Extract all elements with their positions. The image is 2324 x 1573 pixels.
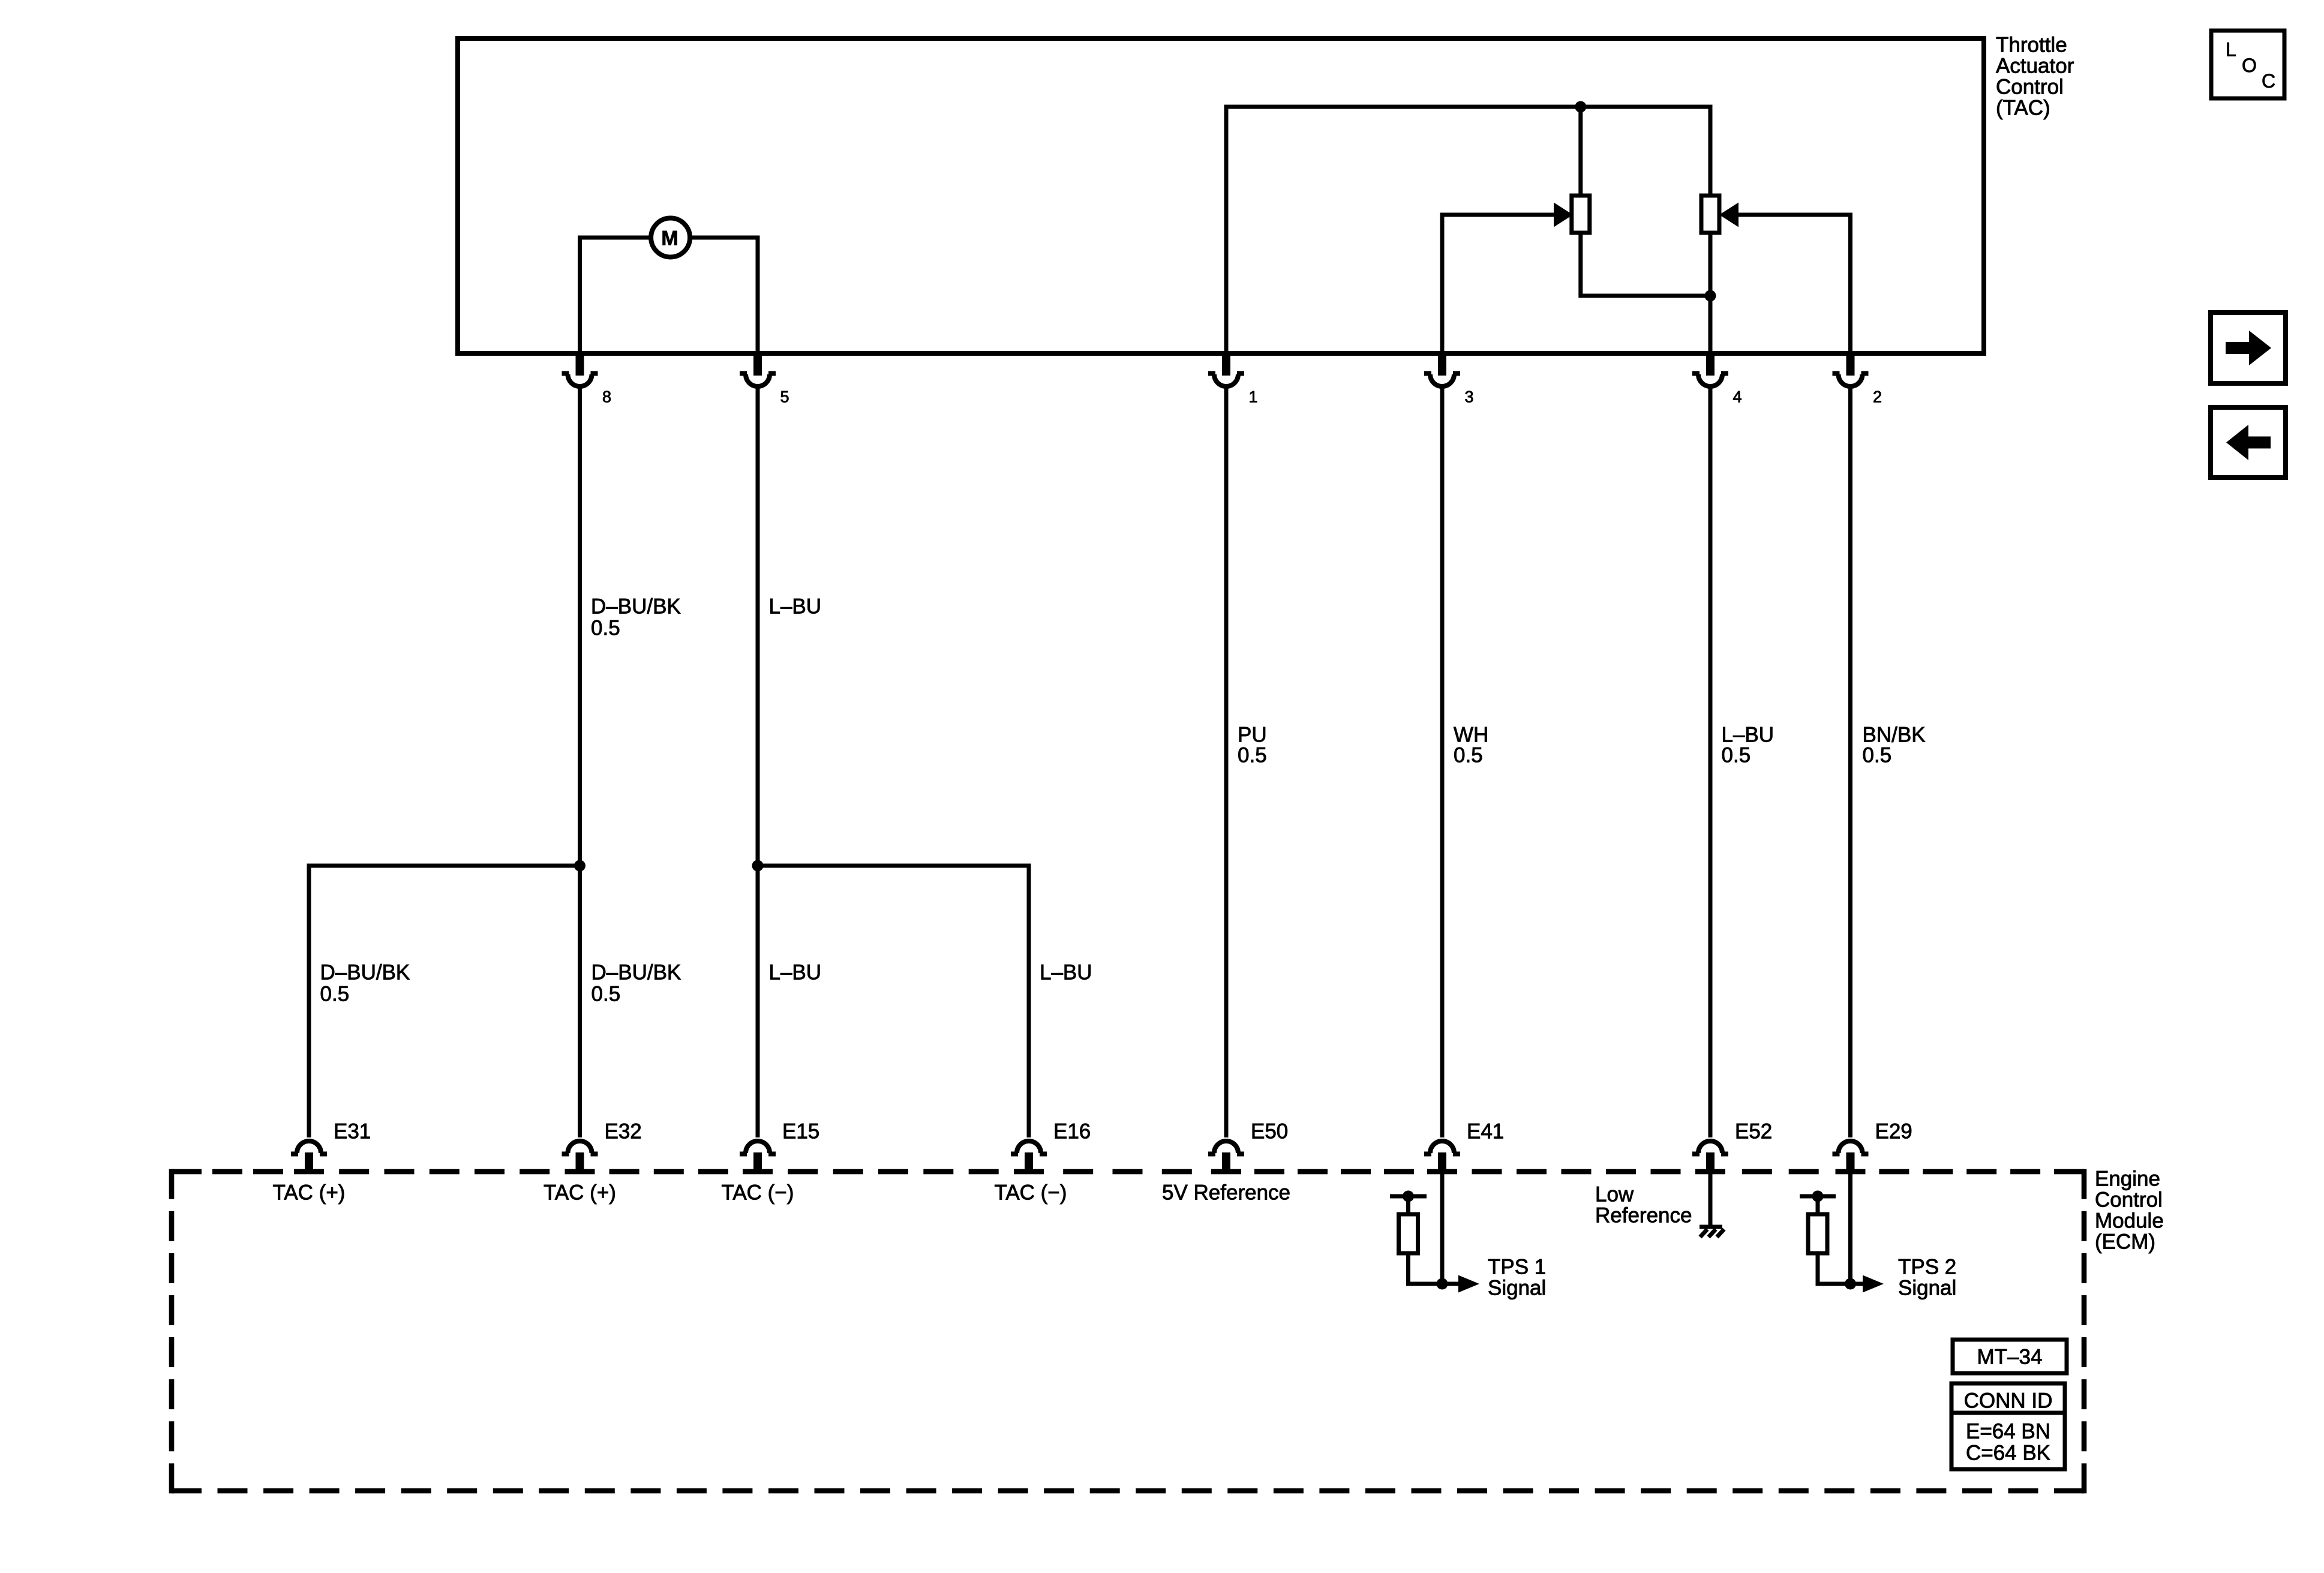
- svg-text:L–BU: L–BU: [1040, 961, 1092, 984]
- node: TPS1 crossbar junction: [1403, 1191, 1414, 1202]
- node: TPS2 signal junction: [1845, 1278, 1856, 1290]
- Engine Control Module (ECM) dashed box: top edge: [172, 1169, 2084, 1175]
- svg-text:E=64 BN: E=64 BN: [1966, 1420, 2050, 1443]
- svg-text:D–BU/BK: D–BU/BK: [591, 961, 681, 984]
- wire: top bus down to resistor R2: [1709, 105, 1713, 197]
- wire: branch to E16: [758, 866, 1029, 1137]
- svg-text:Low: Low: [1595, 1183, 1634, 1206]
- label: D-BU/BK lower run: [591, 961, 681, 1006]
- ECM internal TPS2 crossbar: [1800, 1194, 1836, 1199]
- wiper arrowhead into R2: [1719, 203, 1739, 227]
- Throttle Actuator Control (TAC) box outline: [458, 38, 1984, 353]
- svg-text:Control: Control: [1996, 76, 2064, 99]
- connector pin 5 at TAC: [740, 353, 776, 386]
- svg-text:E31: E31: [334, 1120, 371, 1143]
- ECM dashed box: bottom edge: [172, 1488, 2084, 1494]
- svg-text:Engine: Engine: [2095, 1167, 2160, 1191]
- svg-text:3: 3: [1465, 388, 1474, 406]
- svg-text:0.5: 0.5: [591, 617, 620, 640]
- svg-text:E29: E29: [1875, 1120, 1912, 1143]
- wire: potentiometer top bus: [1226, 105, 1710, 109]
- svg-text:C=64 BK: C=64 BK: [1966, 1442, 2050, 1465]
- wire: TPS1 wiper from pin 3: [1442, 215, 1555, 351]
- LOC legend box: [2211, 31, 2284, 98]
- MT-34 reference box: [1953, 1340, 2067, 1373]
- TPS2 signal arrowhead: [1863, 1275, 1884, 1293]
- svg-text:D–BU/BK: D–BU/BK: [320, 961, 410, 984]
- svg-text:1: 1: [1249, 388, 1258, 406]
- wire: crossbar to resistor R3: [1406, 1196, 1410, 1215]
- connector pin 1 at TAC: [1208, 353, 1244, 386]
- svg-text:Module: Module: [2095, 1209, 2164, 1233]
- svg-text:M: M: [661, 227, 678, 250]
- terminal E15 connector: [740, 1141, 776, 1172]
- svg-text:E50: E50: [1251, 1120, 1288, 1143]
- resistor R1 (TPS 1 element): [1572, 196, 1590, 233]
- wire: pin 4 to E52: [1709, 386, 1713, 1137]
- terminal E29 connector: [1833, 1141, 1869, 1172]
- svg-text:5: 5: [780, 388, 789, 406]
- node: junction on pin 8 wire: [574, 860, 585, 872]
- svg-text:TPS 1: TPS 1: [1488, 1256, 1546, 1279]
- svg-text:0.5: 0.5: [591, 983, 621, 1006]
- wire: pin 5 to E15: [756, 386, 760, 1137]
- ground symbol (Low Reference): [1700, 1227, 1724, 1237]
- wire: pin 8 to E32: [578, 386, 582, 1137]
- wire: motor left lead to pin 8: [578, 236, 651, 352]
- svg-text:(TAC): (TAC): [1996, 97, 2050, 120]
- ECM dashed box: right edge: [2082, 1169, 2087, 1494]
- svg-text:Signal: Signal: [1898, 1277, 1956, 1300]
- backward arrow legend box: [2211, 407, 2286, 478]
- svg-text:0.5: 0.5: [320, 983, 350, 1006]
- label: PU 0.5 wire gauge: [1238, 724, 1267, 767]
- svg-text:E15: E15: [782, 1120, 819, 1143]
- label: Engine Control Module (ECM): [2095, 1167, 2164, 1254]
- wire: E52 into ECM: [1709, 1174, 1713, 1227]
- svg-text:8: 8: [602, 388, 611, 406]
- terminal E41 connector: [1424, 1141, 1460, 1172]
- label: TPS 1 Signal: [1488, 1256, 1546, 1300]
- terminal E31 connector: [291, 1141, 327, 1172]
- wire: crossbar to resistor R4: [1816, 1196, 1820, 1215]
- wire: pin 1 to E50: [1224, 386, 1229, 1137]
- resistor R2 (TPS 2 element): [1701, 196, 1719, 233]
- svg-text:4: 4: [1733, 388, 1742, 406]
- svg-text:E41: E41: [1467, 1120, 1504, 1143]
- wire: R2 bottom through junction to pin 4: [1709, 233, 1713, 351]
- svg-text:TPS 2: TPS 2: [1898, 1256, 1956, 1279]
- svg-text:E52: E52: [1735, 1120, 1772, 1143]
- wire: motor right lead to pin 5: [690, 236, 760, 352]
- svg-text:MT–34: MT–34: [1977, 1346, 2043, 1369]
- svg-text:TAC (−): TAC (−): [995, 1181, 1067, 1205]
- connector pin 3 at TAC: [1424, 353, 1460, 386]
- svg-text:L–BU: L–BU: [769, 961, 822, 984]
- svg-text:Throttle: Throttle: [1996, 34, 2067, 57]
- svg-text:Actuator: Actuator: [1996, 55, 2074, 78]
- svg-text:Signal: Signal: [1488, 1277, 1546, 1300]
- wire: pin 1 riser: [1224, 105, 1229, 352]
- svg-text:0.5: 0.5: [1722, 744, 1751, 767]
- connector pin 2 at TAC: [1833, 353, 1869, 386]
- node: lower link junction: [1705, 290, 1716, 302]
- label: D-BU/BK 0.5 (pin 8 wire): [591, 595, 681, 640]
- terminal E16 connector: [1011, 1141, 1047, 1172]
- svg-text:L–BU: L–BU: [769, 595, 822, 619]
- label: WH 0.5 wire gauge: [1454, 724, 1488, 767]
- wire: pin 2 to E29: [1848, 386, 1852, 1137]
- svg-text:0.5: 0.5: [1238, 744, 1267, 767]
- svg-text:TAC (−): TAC (−): [722, 1181, 794, 1205]
- wire: R3 to TPS1 signal node: [1409, 1253, 1459, 1284]
- wire: E41 into ECM: [1440, 1174, 1445, 1284]
- terminal E32 connector: [562, 1141, 598, 1172]
- terminal E52 connector: [1692, 1141, 1728, 1172]
- svg-text:L: L: [2226, 39, 2236, 61]
- resistor R3 (TPS1 pull resistor): [1399, 1214, 1418, 1253]
- wire: junction down to resistor R1: [1578, 107, 1583, 197]
- svg-text:TAC (+): TAC (+): [544, 1181, 616, 1205]
- terminal E50 connector: [1208, 1141, 1244, 1172]
- svg-text:C: C: [2262, 70, 2275, 92]
- svg-text:Reference: Reference: [1595, 1204, 1692, 1227]
- CONN ID table: [1951, 1383, 2065, 1469]
- wire: branch to E31: [309, 866, 580, 1137]
- port label Low Reference at E52: [1595, 1183, 1692, 1227]
- wire: E29 into ECM: [1848, 1174, 1852, 1284]
- motor M circle: [651, 218, 690, 257]
- svg-text:D–BU/BK: D–BU/BK: [591, 595, 681, 619]
- label: L-BU 0.5 wire gauge: [1722, 724, 1774, 767]
- TPS1 signal arrowhead: [1458, 1275, 1479, 1293]
- svg-text:O: O: [2242, 55, 2257, 76]
- forward arrow legend box: [2211, 313, 2286, 383]
- svg-text:0.5: 0.5: [1454, 744, 1483, 767]
- svg-text:Control: Control: [2095, 1188, 2163, 1212]
- svg-text:CONN ID: CONN ID: [1964, 1389, 2053, 1413]
- ECM dashed box: left edge: [169, 1169, 175, 1494]
- svg-text:E32: E32: [605, 1120, 642, 1143]
- label: D-BU/BK lower run: [320, 961, 410, 1006]
- wire: TPS2 wiper from pin 2: [1737, 215, 1851, 351]
- resistor R4 (TPS2 pull resistor): [1808, 1214, 1827, 1253]
- wire: R4 to TPS2 signal node: [1818, 1253, 1863, 1284]
- connector pin 8 at TAC: [562, 353, 598, 386]
- ECM internal TPS1 crossbar: [1390, 1194, 1427, 1199]
- svg-text:0.5: 0.5: [1863, 744, 1892, 767]
- node: TPS2 crossbar junction: [1812, 1191, 1824, 1202]
- wire: pin 3 to E41: [1440, 386, 1445, 1137]
- svg-text:5V Reference: 5V Reference: [1162, 1181, 1290, 1205]
- connector pin 4 at TAC: [1692, 353, 1728, 386]
- label: BN/BK 0.5 wire gauge: [1863, 724, 1926, 767]
- label: TPS 2 Signal: [1898, 1256, 1956, 1300]
- wire: R1 bottom leg: [1578, 233, 1710, 298]
- node: junction on pin 5 wire: [752, 860, 764, 872]
- node: top bus junction: [1575, 101, 1586, 113]
- label: Throttle Actuator Control (TAC): [1996, 34, 2074, 120]
- wiper arrowhead into R1: [1554, 203, 1573, 227]
- svg-text:E16: E16: [1053, 1120, 1091, 1143]
- svg-text:2: 2: [1873, 388, 1882, 406]
- svg-text:TAC (+): TAC (+): [273, 1181, 346, 1205]
- node: TPS1 signal junction: [1437, 1278, 1448, 1290]
- svg-text:(ECM): (ECM): [2095, 1230, 2155, 1254]
